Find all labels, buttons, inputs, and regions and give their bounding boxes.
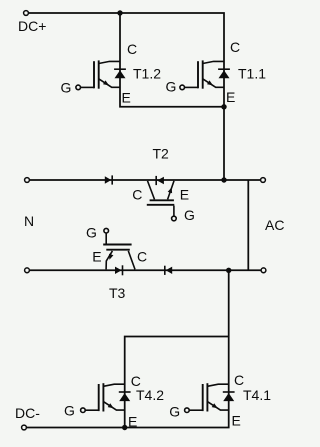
svg-text:T1.2: T1.2: [133, 65, 161, 81]
svg-text:G: G: [184, 207, 195, 223]
svg-text:E: E: [92, 249, 101, 265]
svg-text:T2: T2: [153, 145, 170, 161]
svg-text:C: C: [127, 41, 137, 57]
svg-text:AC: AC: [265, 217, 284, 233]
svg-text:G: G: [86, 225, 97, 241]
svg-text:E: E: [232, 413, 241, 429]
svg-text:G: G: [169, 404, 180, 420]
svg-text:E: E: [128, 413, 137, 429]
svg-text:E: E: [122, 90, 131, 106]
svg-text:N: N: [24, 213, 34, 229]
svg-text:G: G: [166, 78, 177, 94]
svg-text:C: C: [234, 372, 244, 388]
svg-text:T3: T3: [109, 285, 126, 301]
svg-text:G: G: [61, 79, 72, 95]
svg-text:DC+: DC+: [18, 18, 46, 34]
svg-text:C: C: [137, 249, 147, 265]
svg-text:T4.1: T4.1: [243, 387, 271, 403]
svg-text:T4.2: T4.2: [136, 387, 164, 403]
svg-text:C: C: [132, 186, 142, 202]
svg-text:C: C: [230, 39, 240, 55]
svg-text:E: E: [180, 186, 189, 202]
svg-text:DC-: DC-: [15, 405, 40, 421]
svg-text:T1.1: T1.1: [238, 65, 266, 81]
svg-text:E: E: [226, 89, 235, 105]
svg-text:G: G: [64, 403, 75, 419]
